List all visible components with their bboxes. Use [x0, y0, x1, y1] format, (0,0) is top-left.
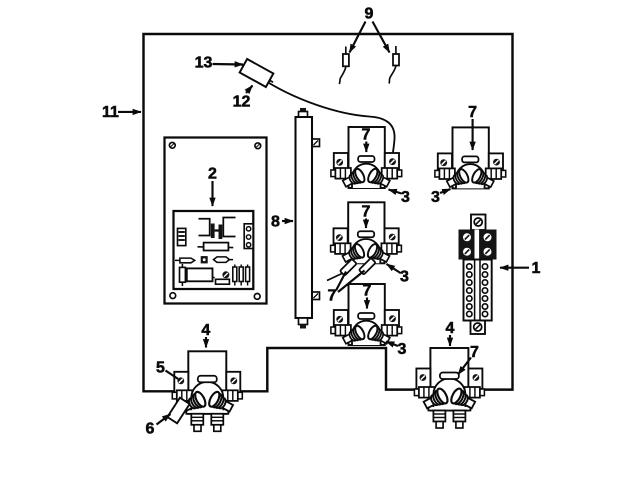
svg-text:5: 5: [156, 360, 165, 377]
svg-text:12: 12: [233, 94, 251, 111]
svg-text:3: 3: [401, 189, 410, 206]
svg-text:9: 9: [365, 6, 374, 23]
svg-text:3: 3: [400, 269, 409, 286]
svg-text:2: 2: [208, 166, 217, 183]
svg-text:7: 7: [470, 344, 479, 361]
svg-text:7: 7: [363, 283, 372, 300]
svg-text:4: 4: [446, 320, 455, 337]
svg-text:4: 4: [201, 322, 210, 339]
svg-text:3: 3: [398, 341, 407, 358]
svg-text:3: 3: [431, 189, 440, 206]
svg-text:8: 8: [271, 214, 280, 231]
svg-text:7: 7: [328, 288, 337, 305]
svg-text:1: 1: [532, 260, 541, 277]
svg-text:7: 7: [362, 204, 371, 221]
svg-text:13: 13: [195, 54, 213, 71]
svg-text:7: 7: [362, 127, 371, 144]
svg-text:11: 11: [102, 104, 119, 121]
svg-text:7: 7: [468, 104, 477, 121]
svg-text:6: 6: [146, 421, 155, 438]
